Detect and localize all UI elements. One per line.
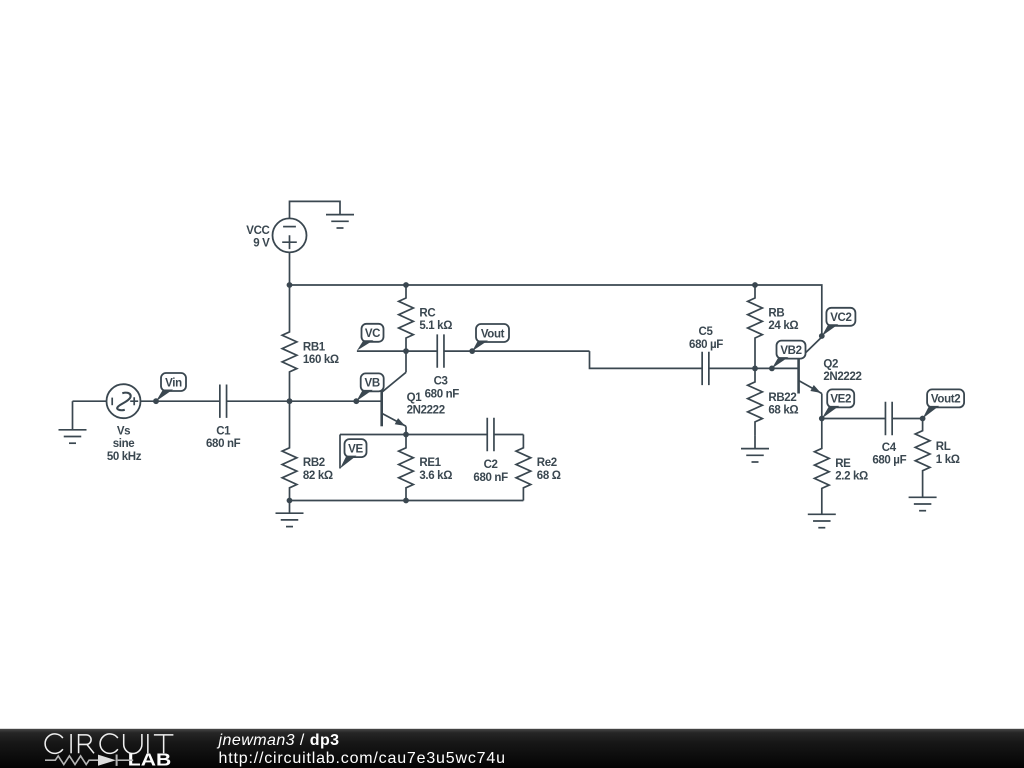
svg-text:C5: C5 [698,326,713,338]
resistor Re2 [516,435,531,501]
capacitor C1 [220,385,227,418]
CircuitLab logo CIRCUIT [45,734,173,754]
svg-text:68 Ω: 68 Ω [537,470,561,482]
node VE2 [819,416,825,422]
wire VCC top to ground [290,201,341,218]
svg-text:VC2: VC2 [830,312,851,324]
svg-text:1 kΩ: 1 kΩ [936,454,960,466]
ground Vs [59,430,87,443]
resistor RB22 [748,368,763,435]
svg-text:VE: VE [348,443,363,455]
capacitor C3 [437,334,444,367]
svg-text:VE2: VE2 [830,394,851,406]
wire step down [590,351,703,368]
capacitor C2 [487,418,494,451]
svg-text:2.2 kΩ: 2.2 kΩ [835,471,868,483]
label RB2 [303,457,333,482]
resistor RB [748,285,763,368]
flag Vout2 [923,389,965,418]
node bus-RB1 [287,282,293,288]
svg-text:160 kΩ: 160 kΩ [303,354,339,366]
svg-text:VB: VB [365,378,380,390]
flag VC2 [822,308,856,336]
label RE [835,458,868,483]
logo resistor-diode symbol [45,755,133,766]
svg-text:5.1 kΩ: 5.1 kΩ [419,320,452,332]
label C2 [473,459,508,484]
label RE1 [419,457,452,482]
label RL [936,441,960,466]
svg-text:2N2222: 2N2222 [823,371,861,383]
svg-text:680 µF: 680 µF [689,339,723,351]
svg-text:sine: sine [113,438,135,450]
node bus-RC [403,282,409,288]
wire bottom rail [290,500,524,502]
resistor RC [399,285,414,351]
svg-text:C2: C2 [484,459,498,471]
svg-text:VB2: VB2 [780,345,801,357]
svg-text:2N2222: 2N2222 [407,405,445,417]
label RB [768,308,798,333]
label Q2 [823,359,861,384]
svg-text:LAB: LAB [128,750,171,768]
svg-text:Q1: Q1 [407,392,423,404]
wire RL ground stub [922,485,924,498]
svg-text:68 kΩ: 68 kΩ [768,405,798,417]
svg-text:RB: RB [768,308,784,320]
svg-text:VCC: VCC [246,225,269,237]
svg-text:RB1: RB1 [303,341,326,353]
node bus-RB [752,282,758,288]
label Vs [107,425,142,463]
flag VE [340,439,367,468]
CircuitLab logo LAB [128,750,171,768]
svg-text:50 kHz: 50 kHz [107,451,142,463]
resistor RE [814,419,829,502]
wire emitter rail left [340,434,487,436]
flag Vin [156,373,186,401]
ground RB22 [741,449,769,462]
ground RE [808,514,836,527]
svg-text:680 nF: 680 nF [473,472,508,484]
node VC rail RC [403,348,409,354]
svg-text:24 kΩ: 24 kΩ [768,320,798,332]
wire C4 to RL [892,418,922,420]
svg-text:RL: RL [936,441,951,453]
wire Vs ground drop [72,401,74,430]
label VCC [246,225,270,250]
ground RL [909,497,937,510]
resistor RB2 [282,401,297,500]
flag VB [356,373,383,401]
svg-text:jnewman3 / dp3: jnewman3 / dp3 [217,732,340,749]
svg-text:9 V: 9 V [253,238,270,250]
svg-text:C4: C4 [882,442,897,454]
resistor RB1 [282,285,297,401]
footer url [219,750,506,767]
svg-text:RE1: RE1 [419,457,441,469]
capacitor C4 [885,402,892,435]
ground RB2 [276,513,304,526]
svg-text:RB2: RB2 [303,457,325,469]
wire VCC bottom to bus [289,252,291,285]
svg-text:3.6 kΩ: 3.6 kΩ [419,470,452,482]
node Vout [469,348,475,354]
node RB2 bottom [287,498,293,504]
svg-text:680 nF: 680 nF [206,438,241,450]
label C1 [206,425,241,450]
wire C5 to Q2 base [709,367,799,369]
svg-text:RE: RE [835,458,851,470]
svg-text:RC: RC [419,308,435,320]
label RC [419,308,452,333]
voltage source VCC [273,218,307,252]
wire C2 to Re2 [494,434,523,436]
label C3 [425,376,460,401]
label C5 [689,326,723,351]
transistor Q1 [382,351,407,434]
wire C1 to Q1 base [227,400,382,402]
resistor RL [915,419,930,485]
svg-text:VC: VC [365,328,380,340]
footer bar [0,729,1024,768]
flag VE2 [822,389,854,418]
svg-text:Vs: Vs [117,425,130,437]
node VB [353,398,359,404]
node RE1 bottom [403,498,409,504]
wire emitter2 rail [822,418,886,420]
label Q1 [407,392,445,417]
flag VB2 [772,341,806,369]
wire VC rail [357,350,437,352]
node VB2 [769,366,775,372]
svg-text:Re2: Re2 [537,457,557,469]
svg-text:RB22: RB22 [768,392,796,404]
svg-text:C3: C3 [434,376,448,388]
svg-text:680 µF: 680 µF [872,455,906,467]
transistor Q2 [799,337,823,419]
wire RE ground stub [821,502,823,515]
wire RB22 ground stub [754,435,756,449]
wire top supply bus [290,285,822,337]
label C4 [872,442,906,467]
svg-text:680 nF: 680 nF [425,388,460,400]
flag Vout [472,324,509,351]
label Re2 [537,457,561,482]
node VC2 [819,333,825,339]
resistor RE1 [399,435,414,501]
node Vin [153,398,159,404]
node base divider [287,398,293,404]
wire VE drop [339,435,341,469]
flag VC [357,324,384,351]
svg-text:C1: C1 [216,425,231,437]
footer title jnewman3 / dp3 [217,732,340,749]
svg-text:Vout: Vout [481,328,505,340]
wire Vs to C1 [141,400,220,402]
node Vout2 [920,416,926,422]
voltage source Vs [107,384,141,418]
svg-text:Q2: Q2 [823,359,838,371]
svg-text:http://circuitlab.com/cau7e3u5: http://circuitlab.com/cau7e3u5wc74u [219,750,506,767]
capacitor C5 [702,352,709,385]
ground VCC [326,215,354,228]
svg-text:Vin: Vin [165,377,182,389]
wire RB2 ground drop [289,501,291,514]
node RB-RB22 [752,366,758,372]
label RB22 [768,392,798,417]
node E1 [403,432,409,438]
wire C3 to step [444,350,590,352]
label RB1 [303,341,339,366]
svg-text:Vout2: Vout2 [931,394,960,406]
wire Vs left [73,400,107,402]
svg-text:82 kΩ: 82 kΩ [303,470,333,482]
